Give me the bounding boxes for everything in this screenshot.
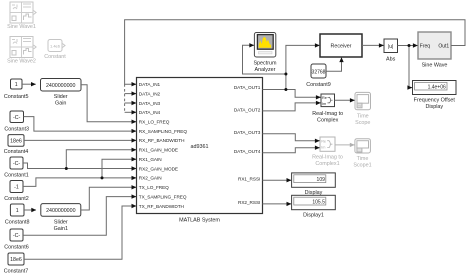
svg-text:TX_RF_BANDWIDTH: TX_RF_BANDWIDTH: [139, 204, 184, 209]
svg-text:Im: Im: [321, 146, 325, 150]
svg-text:RX_RF_BANDWIDTH: RX_RF_BANDWIDTH: [139, 138, 185, 143]
svg-text:Complex1: Complex1: [315, 161, 339, 167]
svg-text:Spectrum: Spectrum: [253, 61, 277, 67]
svg-text:RX1_RSSI: RX1_RSSI: [238, 176, 260, 181]
svg-text:MATLAB System: MATLAB System: [179, 218, 220, 224]
svg-text:Freq: Freq: [420, 44, 431, 50]
svg-text:Analyzer: Analyzer: [255, 67, 276, 73]
svg-text:Im: Im: [322, 102, 326, 106]
svg-text:Constant4: Constant4: [4, 149, 29, 155]
svg-text:|u|: |u|: [388, 44, 393, 50]
svg-text:Frequency Offset: Frequency Offset: [414, 98, 456, 104]
svg-text:DATA_IN4: DATA_IN4: [139, 110, 161, 115]
svg-text:Scope: Scope: [355, 120, 370, 126]
svg-text:RX1_GAIN: RX1_GAIN: [139, 157, 162, 162]
svg-text:Abs: Abs: [386, 57, 396, 63]
svg-text:DATA_IN3: DATA_IN3: [139, 101, 161, 106]
svg-text:Re: Re: [321, 140, 326, 144]
svg-text:RX2_GAIN: RX2_GAIN: [139, 176, 162, 181]
svg-text:DATA_OUT3: DATA_OUT3: [234, 130, 261, 135]
svg-text:Constant9: Constant9: [306, 82, 331, 88]
svg-text:Sine Wave1: Sine Wave1: [7, 24, 36, 30]
svg-text:Constant2: Constant2: [4, 196, 29, 202]
svg-text:RX1_GAIN_MODE: RX1_GAIN_MODE: [139, 148, 178, 153]
svg-text:DATA_OUT4: DATA_OUT4: [234, 149, 261, 154]
svg-text:18e6: 18e6: [10, 139, 22, 145]
svg-text:DATA_IN1: DATA_IN1: [139, 82, 161, 87]
svg-text:RX2_GAIN_MODE: RX2_GAIN_MODE: [139, 166, 178, 171]
svg-text:Slider: Slider: [54, 220, 68, 226]
svg-text:1: 1: [16, 208, 19, 214]
svg-text:-C-: -C-: [13, 233, 21, 239]
svg-text:1.4e6: 1.4e6: [50, 43, 61, 48]
svg-text:2400000000: 2400000000: [46, 83, 76, 89]
svg-text:ad9361: ad9361: [191, 144, 209, 150]
svg-text:Gain1: Gain1: [54, 226, 68, 232]
svg-text:Time: Time: [357, 114, 369, 120]
svg-text:Constant3: Constant3: [4, 126, 29, 132]
svg-text:Gain: Gain: [55, 101, 66, 107]
svg-text:-1: -1: [14, 185, 19, 191]
svg-text:Constant1: Constant1: [4, 173, 29, 179]
svg-text:-C-: -C-: [13, 115, 21, 121]
svg-text:Re: Re: [322, 96, 327, 100]
svg-text:Real-Imag to: Real-Imag to: [312, 155, 343, 161]
svg-text:Scope1: Scope1: [353, 163, 371, 169]
svg-text:RX2_RSSI: RX2_RSSI: [238, 200, 260, 205]
svg-text:-C-: -C-: [13, 161, 21, 167]
svg-text:Display: Display: [425, 104, 443, 110]
svg-text:18e6: 18e6: [10, 257, 22, 263]
svg-text:DATA_IN2: DATA_IN2: [139, 91, 161, 96]
svg-text:TX_SAMPLING_FREQ: TX_SAMPLING_FREQ: [139, 194, 187, 199]
svg-text:RX_SAMPLING_FREQ: RX_SAMPLING_FREQ: [139, 129, 188, 134]
svg-text:32768: 32768: [312, 69, 326, 75]
svg-text:Slider: Slider: [54, 94, 68, 100]
svg-text:Constant: Constant: [44, 54, 66, 60]
svg-text:Sine Wave: Sine Wave: [422, 63, 448, 69]
svg-text:1.4e+06: 1.4e+06: [428, 85, 446, 91]
svg-text:RX_LO_FREQ: RX_LO_FREQ: [139, 120, 170, 125]
svg-text:DATA_OUT2: DATA_OUT2: [234, 107, 261, 112]
svg-text:109: 109: [317, 177, 326, 183]
svg-text:Constant8: Constant8: [5, 220, 30, 226]
svg-text:Constant7: Constant7: [4, 269, 29, 275]
svg-text:2400000000: 2400000000: [46, 208, 76, 214]
svg-text:Time: Time: [357, 156, 369, 162]
svg-text:Real-Imag to: Real-Imag to: [312, 111, 343, 117]
svg-text:105.5: 105.5: [312, 200, 325, 206]
svg-text:Out1: Out1: [438, 44, 449, 50]
svg-text:Sine Wave2: Sine Wave2: [7, 59, 36, 65]
svg-text:Constant6: Constant6: [4, 245, 29, 251]
svg-text:TX_LO_FREQ: TX_LO_FREQ: [139, 185, 169, 190]
svg-text:DATA_OUT1: DATA_OUT1: [234, 85, 261, 90]
svg-text:Receiver: Receiver: [331, 44, 352, 50]
svg-text:Constant5: Constant5: [4, 94, 29, 100]
svg-text:1: 1: [15, 82, 18, 88]
svg-text:Complex: Complex: [317, 118, 339, 124]
svg-text:Display1: Display1: [303, 213, 324, 219]
